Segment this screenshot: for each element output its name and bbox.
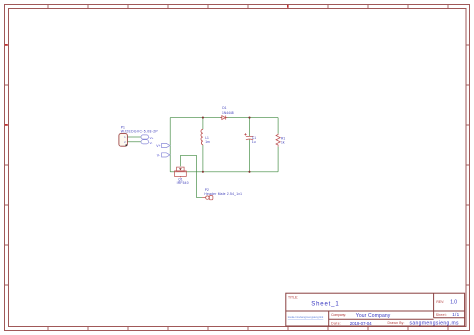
junction top-left node A (202, 117, 204, 119)
net port V- at P1 pin2 (141, 140, 149, 144)
frame graduation ticks left/right (5, 45, 470, 285)
net port V+ at P1 pin1 (141, 135, 149, 139)
wire C1 branch lower (249, 139, 251, 171)
svg-text:WJ2EDGVC-5.08-2P: WJ2EDGVC-5.08-2P (121, 129, 159, 133)
title block divider company/date center (329, 318, 434, 320)
svg-text:1k: 1k (281, 140, 285, 144)
wire right vertical lower (277, 147, 279, 172)
svg-text:D1: D1 (222, 106, 226, 110)
svg-text:IRF540: IRF540 (177, 181, 189, 185)
svg-text:Sheet_1: Sheet_1 (311, 302, 339, 308)
junction top-right node B (248, 117, 250, 119)
transistor Q1 MOSFET (175, 167, 187, 177)
svg-text:Date:: Date: (331, 322, 341, 326)
inductor L1 (201, 129, 203, 144)
wire gate loop (180, 156, 202, 198)
title block divider under TITLE row (286, 310, 465, 312)
frame zone label marks (5, 5, 289, 126)
title block outline (286, 293, 465, 326)
P1 anchor dot (125, 144, 127, 146)
connector P1 body (119, 134, 128, 147)
svg-text:sangmengsieng.ms: sangmengsieng.ms (410, 320, 460, 326)
svg-text:1/1: 1/1 (452, 312, 459, 317)
svg-text:1.0: 1.0 (450, 299, 457, 305)
svg-text:1N4448: 1N4448 (222, 111, 234, 115)
svg-text:V-: V- (157, 154, 160, 158)
wire P1 pin1 (127, 136, 141, 138)
wire bottom rail (186, 171, 278, 173)
resistor R1 (276, 134, 280, 147)
title block divider sheet/drawn right (434, 317, 465, 319)
junction bottom-left (202, 171, 204, 173)
diode D1 (220, 116, 227, 120)
svg-text:Sheet:: Sheet: (436, 313, 447, 317)
wire right vertical (277, 118, 279, 134)
title block vertical divider left of company column (328, 311, 330, 326)
wire L1 branch lower (202, 145, 204, 172)
svg-text:Company:: Company: (331, 313, 346, 317)
header P2 (202, 196, 213, 200)
wire left vertical (169, 118, 171, 172)
wire top rail (170, 117, 278, 119)
wire P1 pin2 (127, 141, 141, 143)
svg-text:Drawn By:: Drawn By: (388, 321, 405, 325)
net flag V+ into circuit (162, 143, 170, 147)
svg-text:REV:: REV: (436, 300, 444, 304)
svg-text:V+: V+ (156, 144, 160, 148)
svg-text:lceda.cn/u/sangmengsieng.link: lceda.cn/u/sangmengsieng.link (288, 315, 324, 319)
svg-text:2019-07-04: 2019-07-04 (350, 321, 372, 326)
svg-text:V+: V+ (150, 136, 154, 140)
wire L1 branch upper (202, 118, 204, 130)
capacitor C1 polarized (244, 133, 253, 140)
svg-text:Your Company: Your Company (356, 313, 391, 319)
net flag V- into circuit (162, 153, 170, 157)
title block vertical divider left of REV column (433, 293, 435, 318)
junction bottom-right (248, 171, 250, 173)
svg-text:1m: 1m (205, 140, 210, 144)
svg-text:1u: 1u (252, 140, 256, 144)
svg-text:TITLE:: TITLE: (288, 295, 298, 299)
svg-text:V-: V- (150, 141, 153, 145)
wire C1 branch upper (249, 118, 251, 136)
wire mosfet left stub (170, 171, 175, 173)
svg-text:Header Male 2.54_1x1: Header Male 2.54_1x1 (204, 192, 242, 196)
